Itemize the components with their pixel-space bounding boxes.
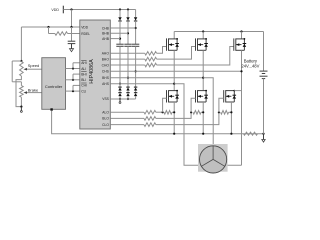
wire AHO to gate (157, 47, 167, 54)
svg-text:BHO: BHO (102, 57, 110, 61)
wire Q2 source (173, 102, 175, 134)
wire RDEL lead (49, 33, 55, 35)
wire clamp col B between (127, 91, 129, 93)
resistor gate RG6 (CLO) (144, 123, 156, 127)
wire Q3 source / phase B (202, 50, 204, 90)
node VDD rail / bootstrap diode A (119, 8, 121, 10)
svg-text:AHB: AHB (102, 37, 110, 41)
wire clamp col B bottom (127, 96, 129, 99)
node pot supply (20, 60, 22, 62)
node Q2 gate junction (162, 111, 164, 113)
wire clamp col A between (119, 91, 121, 93)
wire AHB row (110, 38, 120, 40)
wire BHB row (110, 32, 128, 34)
node VDD rail to chip feed (70, 8, 72, 10)
capacitor bootstrap A (116, 43, 123, 45)
node Q2 source / RGS2 (173, 111, 175, 113)
wire clamp col C between (135, 91, 137, 93)
wire CHS row (110, 70, 241, 72)
wire left rail to brake top (12, 81, 21, 83)
wire BHI bracket (72, 74, 74, 80)
node VDD pin / RDEL branch (47, 26, 49, 28)
wire bootstrap col A lower (119, 46, 121, 85)
ground power (battery) (263, 134, 265, 140)
wire CHB row (110, 27, 135, 29)
wire CLI row (66, 90, 80, 92)
wire ALI row (66, 68, 80, 70)
wire bootstrap col C lower (135, 46, 137, 87)
wire ALO row (156, 111, 163, 113)
svg-text:CLO: CLO (102, 123, 109, 127)
wire VDD cap lead (71, 27, 73, 41)
svg-text:24V...48V: 24V...48V (241, 63, 259, 68)
diode clamp B2 (126, 93, 129, 96)
svg-text:VDD: VDD (81, 25, 89, 29)
svg-text:HIP4086A: HIP4086A (89, 59, 95, 84)
resistor gate-source RGS6 (221, 111, 229, 115)
wire Q1 drain (173, 32, 175, 39)
motor M1 body (200, 146, 227, 173)
wire speed bottom jog (16, 76, 21, 107)
wire bootstrap col B mid (127, 21, 129, 44)
svg-text:AHS: AHS (102, 82, 110, 86)
resistor RDEL (55, 32, 68, 36)
wire VDD down to pots (20, 27, 22, 61)
ground signal (VSS) (119, 99, 121, 102)
wire BHO lead (110, 58, 145, 60)
resistor gate-source RGS4 (193, 111, 201, 115)
node phase A (173, 83, 175, 85)
node VSS col A (119, 98, 121, 100)
wire brake wiper (27, 92, 42, 94)
node Q4 gate junction (190, 111, 192, 113)
wire RGS4 to source (201, 111, 203, 113)
node ALI/AHI tie (72, 67, 74, 69)
node VDD rail / bootstrap diode B (127, 8, 129, 10)
wire RDEL branch drop (48, 27, 50, 34)
wire bootstrap col B lower (127, 46, 129, 87)
resistor gate RG4 (BLO) (144, 117, 156, 121)
node CHS junction col C (135, 70, 137, 72)
svg-text:VDD: VDD (51, 8, 59, 12)
diode bootstrap A (118, 17, 121, 20)
node Q2 source on return rail (173, 133, 175, 135)
wire BHO to gate (157, 47, 196, 60)
wire current sense return (52, 111, 264, 134)
wire RDEL to pin (68, 33, 80, 35)
op-amp U1 HIP4086A body (80, 20, 111, 129)
wire VDD pin row (21, 26, 79, 28)
diode clamp C1 (134, 88, 137, 91)
wire CHI row (73, 84, 80, 86)
diode clamp A2 (118, 93, 121, 96)
node Q4 source / RGS4 (202, 111, 204, 113)
motor mounting plate (198, 144, 228, 172)
node CHB junction (135, 27, 137, 29)
svg-text:Speed: Speed (28, 63, 40, 68)
resistor gate RG1 (AHO) (145, 52, 157, 56)
brake wiper arrowhead (23, 91, 27, 94)
wire phase A to motor (174, 84, 201, 166)
svg-text:BHB: BHB (102, 32, 110, 36)
potentiometer speed (20, 62, 24, 77)
transistor Q4 (low side B) (195, 90, 197, 102)
capacitor bootstrap B (124, 43, 131, 45)
svg-text:BLI: BLI (81, 78, 86, 82)
node phase B (202, 77, 204, 79)
resistor sense RS (244, 132, 258, 135)
diode clamp A1 (118, 88, 121, 91)
node battery negative (262, 133, 264, 135)
node rail / Q5 drain (240, 30, 242, 32)
diode bootstrap B (126, 17, 129, 20)
svg-text:ALO: ALO (102, 111, 109, 115)
svg-text:BHI: BHI (81, 72, 87, 76)
wire bootstrap col B top (127, 10, 129, 18)
wire BHI row (73, 73, 80, 75)
node BLI/BHI tie (72, 79, 74, 81)
wire Q4 gate lead (191, 98, 195, 112)
wire bootstrap col C top (135, 10, 137, 18)
resistor gate-source RGS2 (164, 111, 172, 115)
transistor Q1 (high side A) (166, 38, 168, 50)
wire speed wiper (27, 68, 42, 70)
wire Q5 drain (241, 32, 243, 39)
wire pot supply jog (12, 60, 21, 62)
wire RGS6 to source (229, 111, 232, 113)
wire CLO row (156, 112, 219, 124)
controller box (42, 58, 66, 110)
node AHS junction col A (119, 83, 121, 85)
wire bootstrap col A top (119, 10, 121, 18)
svg-text:BHS: BHS (102, 76, 110, 80)
transistor Q5 (high side C) (233, 38, 235, 50)
wire CHI bracket (72, 85, 74, 91)
wire VDD feed drop (71, 10, 73, 28)
wire Q4 source (202, 102, 204, 134)
transistor Q3 (high side B) (195, 38, 197, 50)
node Q6 source on return rail (230, 133, 232, 135)
wire brake top lead (20, 82, 22, 86)
capacitor bootstrap C (132, 43, 139, 45)
wire ALO lead (110, 111, 144, 113)
svg-text:CHS: CHS (102, 70, 110, 74)
wire BLI row (66, 79, 80, 81)
wire phase C to motor (225, 164, 241, 166)
node VSS col B (127, 98, 129, 100)
resistor gate RG5 (CHO) (145, 63, 157, 67)
wire BHS row (110, 77, 203, 79)
wire rail to battery (263, 32, 265, 71)
ground signal (pots) (20, 107, 22, 111)
wire phase B to motor (203, 78, 213, 146)
resistor gate RG2 (ALO) (144, 110, 156, 114)
VDD flag tick (62, 6, 64, 14)
svg-text:Brake: Brake (28, 87, 39, 92)
transistor Q6 (low side C) (223, 90, 225, 102)
wire AHO lead (110, 52, 145, 54)
node AHB junction (119, 38, 121, 40)
transistor Q2 (low side A) (166, 90, 168, 102)
svg-text:AHI: AHI (81, 61, 87, 65)
svg-text:Controller: Controller (45, 84, 63, 89)
battery BT1 (260, 70, 268, 72)
ground signal (VDD cap) (71, 44, 73, 49)
wire left rail down (11, 61, 13, 82)
motor windings Y (212, 146, 214, 159)
wire AHI row (73, 62, 80, 64)
node pot ground (20, 106, 22, 108)
node BHS junction col B (127, 77, 129, 79)
diode clamp B1 (126, 88, 129, 91)
wire bridge rail (174, 31, 263, 33)
diode bootstrap C (134, 17, 137, 20)
controller bottom pad (50, 108, 52, 110)
svg-text:CHB: CHB (102, 26, 110, 30)
wire CLO lead (110, 124, 144, 126)
wire bootstrap col A mid (119, 21, 121, 44)
svg-text:ALI: ALI (81, 67, 86, 71)
wire clamp col A upper (119, 84, 121, 87)
wire Q5 source / phase C (241, 50, 243, 165)
node Q6 gate junction (218, 111, 220, 113)
wire BLO lead (110, 117, 144, 119)
wire Q6 gate lead (219, 98, 224, 112)
wire Q6 source (230, 102, 232, 134)
potentiometer brake (20, 86, 24, 98)
wire AHI bracket (72, 63, 74, 69)
wire Q1 source / phase A (173, 50, 175, 90)
wire clamp col A bottom (119, 96, 121, 99)
svg-text:CLI: CLI (81, 89, 86, 93)
wire RGS2 to source (172, 111, 174, 113)
wire battery negative lead (263, 79, 265, 134)
wire Q3 drain (202, 32, 204, 39)
wire brake bottom lead (20, 97, 22, 106)
wire Q2 gate lead (163, 98, 167, 112)
node Q6 source / RGS6 (230, 111, 232, 113)
svg-text:CHO: CHO (102, 63, 110, 67)
wire bootstrap col C mid (135, 21, 137, 44)
capacitor VDD bypass (68, 40, 76, 42)
wire VDD top rail (63, 9, 135, 11)
node Q4 source on return rail (202, 133, 204, 135)
wire AHS row (110, 83, 174, 85)
wire clamp col C bottom (135, 96, 137, 99)
node VDD pin / feed (70, 26, 72, 28)
wire BLO row (156, 112, 191, 118)
wire CHO to gate (157, 47, 234, 66)
diode clamp C2 (134, 93, 137, 96)
node rail / Q3 drain (202, 30, 204, 32)
svg-text:RDEL: RDEL (81, 32, 90, 36)
wire CHO lead (110, 64, 145, 66)
svg-text:VSS: VSS (102, 97, 109, 101)
wire VSS row (110, 98, 135, 100)
svg-text:CHI: CHI (81, 84, 87, 88)
node phase C (240, 70, 242, 72)
node CLI/CHI tie (72, 90, 74, 92)
svg-text:BLO: BLO (102, 117, 109, 121)
wire Q6 drain stub to phase C (234, 90, 241, 92)
svg-text:AHO: AHO (102, 52, 110, 56)
node BHB junction (127, 32, 129, 34)
speed wiper arrowhead (23, 68, 27, 71)
resistor gate RG3 (BHO) (145, 57, 157, 61)
